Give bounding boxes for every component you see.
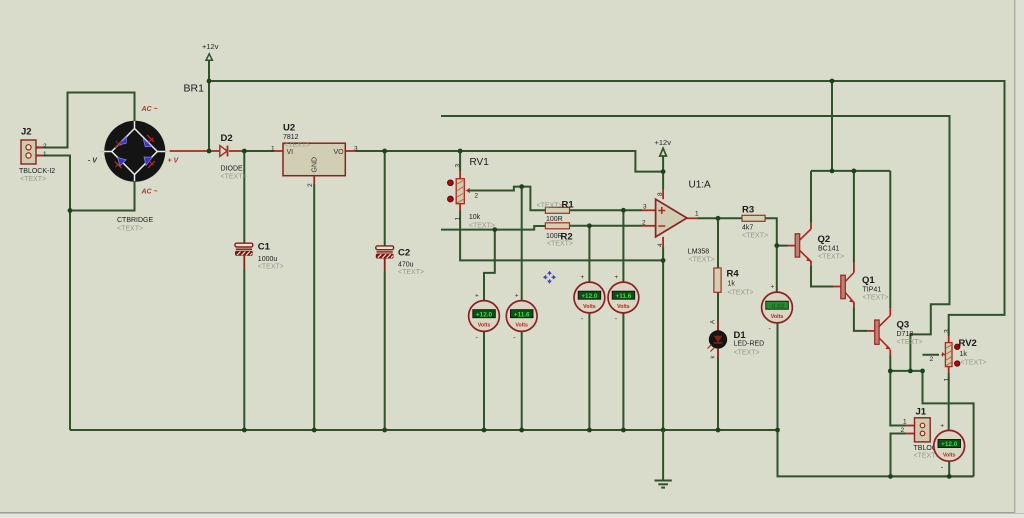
voltmeter VM3 xyxy=(574,274,605,323)
LED D1 xyxy=(708,320,765,359)
wire output to bottom right rail xyxy=(923,371,974,477)
node VM4 tap xyxy=(621,208,626,213)
node VM5 tap on Q2 base wire xyxy=(774,243,779,248)
svg-text:<TEXT>: <TEXT> xyxy=(818,253,844,260)
svg-text:Volts: Volts xyxy=(771,314,784,320)
svg-text:<TEXT>: <TEXT> xyxy=(20,176,46,183)
svg-text:2: 2 xyxy=(475,193,479,200)
wire bridge +V to D2 anode (red) xyxy=(170,150,220,152)
node J2 pin1 / bridge bottom xyxy=(68,208,73,213)
svg-text:Volts: Volts xyxy=(478,323,491,329)
bridge diode NW xyxy=(115,137,126,148)
svg-text:+11.6: +11.6 xyxy=(615,293,631,300)
svg-text:GND: GND xyxy=(312,157,319,173)
svg-text:D2: D2 xyxy=(221,133,233,144)
pin Q2 base stub xyxy=(788,245,796,247)
voltmeter VM2 xyxy=(506,293,537,342)
voltmeter VM5 xyxy=(762,284,793,334)
svg-text:+12v: +12v xyxy=(655,138,672,147)
node VM5 on ground rail corner xyxy=(775,428,780,433)
svg-text:8: 8 xyxy=(657,192,664,196)
pin U2 VI stub xyxy=(274,150,283,152)
capacitor C2 xyxy=(376,246,424,276)
svg-text:1k: 1k xyxy=(960,351,968,358)
wire R3 right to Q2 base xyxy=(765,218,787,245)
pin RV2 pin3 stub xyxy=(948,336,950,343)
wire C1 top xyxy=(243,151,245,243)
svg-text:R4: R4 xyxy=(727,269,740,280)
wire output node horizontal xyxy=(890,370,922,372)
node Q1 collector rail tap xyxy=(852,169,857,174)
pin R1 right red to op-amp pin3 xyxy=(642,209,656,211)
node RV2 wiper tee xyxy=(920,369,925,374)
svg-text:+: + xyxy=(515,293,519,300)
pin C2 bottom stub xyxy=(384,259,386,273)
pin Q1 collector stub xyxy=(853,263,855,273)
voltmeter VM6 xyxy=(934,422,965,471)
svg-text:Volts: Volts xyxy=(583,304,596,310)
wire R2 right to op-amp pin2 xyxy=(570,225,643,227)
potentiometer RV1 xyxy=(448,157,495,230)
svg-text:+12.0: +12.0 xyxy=(476,311,493,318)
svg-text:- V: - V xyxy=(88,158,98,165)
svg-text:<TEXT>: <TEXT> xyxy=(742,233,768,240)
svg-text:<TEXT>: <TEXT> xyxy=(469,223,495,230)
pin D1 anode stub xyxy=(717,322,719,331)
pin Q2 collector stub xyxy=(810,223,812,230)
wire VM1 bottom xyxy=(483,331,485,430)
svg-text:+: + xyxy=(940,422,944,429)
pin J1 pin1 stub xyxy=(906,425,920,427)
svg-text:<TEXT>: <TEXT> xyxy=(689,257,715,264)
svg-text:+12.0: +12.0 xyxy=(941,441,958,448)
svg-text:+12v: +12v xyxy=(202,42,219,51)
svg-text:TBLOCK-I2: TBLOCK-I2 xyxy=(19,168,55,175)
wire VM5 bottom xyxy=(777,323,779,430)
wire bottom-right rail xyxy=(778,430,974,476)
wire +12v stem down to D2 anode node xyxy=(208,61,210,152)
svg-text:CTBRIDGE: CTBRIDGE xyxy=(117,217,154,224)
node C1 on ground rail xyxy=(242,428,247,433)
pin U2 VO stub xyxy=(345,150,355,152)
svg-text:3: 3 xyxy=(643,204,647,211)
svg-text:Volts: Volts xyxy=(617,304,630,310)
wire Q3 collector up xyxy=(889,171,891,308)
node VM6 on bottom rail xyxy=(947,474,952,479)
wire VM5 top xyxy=(776,246,778,293)
svg-text:3: 3 xyxy=(354,146,358,153)
node VM4 on ground rail xyxy=(621,428,626,433)
svg-text:DIODE: DIODE xyxy=(221,166,244,173)
svg-text:1: 1 xyxy=(43,151,47,158)
window right border line xyxy=(1014,0,1015,513)
svg-text:7812: 7812 xyxy=(283,134,299,141)
pin RV2 pin1 stub xyxy=(948,367,950,373)
svg-text:Volts: Volts xyxy=(943,452,956,458)
wire left ground drop xyxy=(69,211,71,431)
svg-text:4: 4 xyxy=(657,243,664,247)
svg-text:AC ~: AC ~ xyxy=(141,189,158,196)
bridge diode SE xyxy=(144,157,155,168)
op-amp U1:A xyxy=(642,180,715,264)
ground symbol xyxy=(655,430,672,488)
transistor Q3 D718 xyxy=(875,316,923,350)
svg-text:C2: C2 xyxy=(398,248,410,259)
svg-text:1: 1 xyxy=(944,378,951,382)
svg-text:R3: R3 xyxy=(742,205,754,216)
wire J2 pin2 to bridge AC top xyxy=(36,93,135,148)
svg-text:VI: VI xyxy=(287,149,294,156)
node RV1 pin3 on VO rail xyxy=(458,149,463,154)
svg-text:C1: C1 xyxy=(258,242,271,253)
svg-text:2: 2 xyxy=(930,356,934,363)
node Q2 collector rail tap xyxy=(830,169,835,174)
node feedback tap on output node xyxy=(908,369,913,374)
svg-text:3: 3 xyxy=(455,164,462,168)
svg-text:D718: D718 xyxy=(897,331,914,338)
svg-text:<TEXT>: <TEXT> xyxy=(728,290,754,297)
svg-text:470u: 470u xyxy=(398,262,414,269)
bridge diode SW xyxy=(115,158,126,169)
transistor Q2 BC141 xyxy=(795,229,844,262)
wire VM4 branch xyxy=(622,210,624,282)
wire Q3 emitter down xyxy=(889,356,891,371)
svg-text:U1:A: U1:A xyxy=(689,180,712,191)
node +12v tap on top rail xyxy=(207,79,212,84)
pin R2 right red to op-amp pin2 xyxy=(642,225,656,227)
pin op-amp pin8 stub xyxy=(662,189,664,199)
terminal block J2 xyxy=(19,127,55,183)
svg-text:Q3: Q3 xyxy=(897,320,910,331)
terminal block J1 xyxy=(901,407,950,460)
bridge rectifier BR1 CTBRIDGE xyxy=(88,83,204,233)
svg-text:1: 1 xyxy=(271,146,275,153)
voltmeter VM1 xyxy=(469,293,500,342)
wire U2 GND pin2 down xyxy=(313,184,315,430)
wire D2 cathode stub xyxy=(229,150,243,152)
node R4 tap on output wire xyxy=(716,216,721,221)
svg-text:<TEXT>: <TEXT> xyxy=(547,241,573,248)
bridge diode NE xyxy=(143,135,154,147)
wire RV2 wiper xyxy=(923,354,940,356)
svg-text:1: 1 xyxy=(695,211,699,218)
wire J2 pin1 to bridge AC bottom xyxy=(36,156,135,211)
wire VM3 bottom xyxy=(588,313,590,430)
pin RV1 pin3 stub xyxy=(459,171,461,179)
origin marker xyxy=(543,271,556,284)
node D1 on ground rail xyxy=(716,428,721,433)
power symbol +12v (left) xyxy=(202,42,219,61)
wire C1 bottom xyxy=(243,270,245,430)
wire top +12v rail to RV2 pin3 xyxy=(209,81,1005,336)
pin Q3 emitter stub xyxy=(889,350,891,356)
node C2 on VO rail xyxy=(382,149,387,154)
pin J2 pin1 stub xyxy=(31,155,44,157)
pin Q3 base stub xyxy=(867,330,875,332)
svg-text:1: 1 xyxy=(903,419,907,426)
svg-text:Volts: Volts xyxy=(515,323,528,329)
svg-text:2: 2 xyxy=(43,143,47,150)
svg-text:+12.0: +12.0 xyxy=(581,293,598,300)
svg-text:+11.6: +11.6 xyxy=(514,311,530,318)
node VM1 on ground rail xyxy=(482,428,487,433)
svg-text:<TEXT>: <TEXT> xyxy=(221,174,247,181)
wire op-amp pin4 down xyxy=(662,247,664,430)
power symbol +12v (op-amp) xyxy=(655,138,672,156)
node +12v arrow2 tee xyxy=(661,169,666,174)
svg-text:D1: D1 xyxy=(734,330,747,341)
node C2 on ground rail xyxy=(382,428,387,433)
wire RV1 wiper to R1 xyxy=(467,187,545,211)
svg-text:R1: R1 xyxy=(562,200,575,211)
resistor R2 xyxy=(545,223,573,248)
wire Q2 emitter to Q1 base xyxy=(811,266,833,287)
node VM3 tap xyxy=(587,223,592,228)
svg-text:<TEXT>: <TEXT> xyxy=(537,203,563,210)
wire D2 cathode to U2 VI xyxy=(243,150,274,152)
svg-text:U2: U2 xyxy=(283,123,295,134)
wire VM6 bottom xyxy=(948,461,950,476)
wire op-amp pin8 to +12v xyxy=(662,172,664,189)
transistor Q1 TIP41 xyxy=(841,273,889,303)
svg-text:+ V: + V xyxy=(168,158,180,165)
wire wiper branch to VM2 xyxy=(521,187,523,301)
resistor R4 xyxy=(714,268,754,297)
svg-text:100R: 100R xyxy=(546,216,563,223)
pin D1 cathode stub xyxy=(717,349,719,357)
pin J2 pin2 stub xyxy=(31,146,44,148)
node D2 cathode / C1 xyxy=(242,149,247,154)
wire R1 right to op-amp pin3 xyxy=(570,209,643,211)
svg-text:-0.02: -0.02 xyxy=(770,303,785,310)
voltmeter VM4 xyxy=(608,274,639,323)
window bottom strip xyxy=(0,512,1024,514)
svg-text:4k7: 4k7 xyxy=(742,225,753,232)
wire feedback rail y116 to output node xyxy=(441,116,950,371)
svg-text:Q1: Q1 xyxy=(862,275,875,286)
node VM2 on ground rail xyxy=(519,428,524,433)
node top rail to collector rail xyxy=(830,79,835,84)
wire collectors rail xyxy=(811,170,890,172)
wire Q2 collector up xyxy=(810,171,812,223)
potentiometer RV2 xyxy=(930,329,987,382)
pin J1 pin2 stub xyxy=(906,433,920,435)
svg-text:<TEXT>: <TEXT> xyxy=(961,360,987,367)
pin op-amp pin4 stub xyxy=(662,237,664,247)
svg-text:+: + xyxy=(580,274,584,281)
svg-text:LED-RED: LED-RED xyxy=(734,341,765,348)
wire VM2 bottom xyxy=(521,331,523,430)
wire R2 left to feedback rail xyxy=(441,226,545,230)
svg-text:2: 2 xyxy=(901,427,905,434)
svg-text:2: 2 xyxy=(307,183,314,187)
resistor R1 xyxy=(537,200,575,224)
wire ground rail xyxy=(70,429,778,431)
svg-text:<TEXT>: <TEXT> xyxy=(284,142,310,149)
wire Q1 collector up xyxy=(853,171,855,263)
wire D1 cathode down xyxy=(717,349,719,430)
svg-text:<TEXT>: <TEXT> xyxy=(117,226,143,233)
svg-text:+: + xyxy=(475,293,479,300)
wire +12v arrow2 stem xyxy=(662,156,664,171)
svg-text:<TEXT>: <TEXT> xyxy=(258,264,284,271)
svg-text:AC ~: AC ~ xyxy=(141,106,158,113)
svg-text:+: + xyxy=(614,274,618,281)
wire VM4 bottom xyxy=(622,313,624,430)
capacitor C1 xyxy=(235,242,284,271)
regulator U2 7812 xyxy=(271,123,358,188)
svg-text:<TEXT>: <TEXT> xyxy=(863,295,889,302)
node J1 pin2 on bottom rail xyxy=(888,474,893,479)
pin op-amp out stub xyxy=(687,217,698,219)
svg-text:J2: J2 xyxy=(21,127,32,138)
svg-text:Q2: Q2 xyxy=(818,234,831,245)
node +12v stem on D2 wire xyxy=(207,149,212,154)
resistor R3 xyxy=(742,205,768,240)
svg-text:A: A xyxy=(711,320,717,324)
wire R4 top xyxy=(717,218,719,267)
svg-text:3: 3 xyxy=(944,329,951,333)
svg-text:1: 1 xyxy=(455,217,462,221)
node U2 gnd on ground rail xyxy=(312,428,317,433)
wire Q3 emitter node to J1 pin1 xyxy=(890,371,906,426)
node wiper / VM2 tap xyxy=(519,184,524,189)
node VM1 tap on R2 wire xyxy=(492,227,497,232)
wire top rail drop to collectors rail xyxy=(831,81,833,171)
wire RV1 pin3 up xyxy=(459,151,461,171)
pin Q1 base stub xyxy=(833,286,841,288)
wire RV1 pin1 to op-amp pin4 ground wire xyxy=(460,211,663,260)
node Q3 emitter junction xyxy=(888,369,893,374)
svg-text:+: + xyxy=(771,284,775,291)
svg-text:<TEXT>: <TEXT> xyxy=(734,350,760,357)
svg-text:10k: 10k xyxy=(469,214,481,221)
svg-text:TIP41: TIP41 xyxy=(863,287,882,294)
wire VM1 branch xyxy=(484,230,495,301)
svg-text:1k: 1k xyxy=(728,281,736,288)
svg-text:<TEXT>: <TEXT> xyxy=(897,339,923,346)
wire VM3 branch xyxy=(588,226,590,282)
pin RV1 pin1 stub xyxy=(459,204,461,211)
svg-text:2: 2 xyxy=(642,220,646,227)
pin Q2 emitter stub xyxy=(810,261,812,266)
wire U2 VO +12v rail xyxy=(355,151,663,172)
svg-text:J1: J1 xyxy=(916,407,927,418)
wire bottom ground rail right xyxy=(891,475,974,477)
svg-text:RV1: RV1 xyxy=(470,157,490,168)
wire J1 pin2 to ground rail xyxy=(891,434,907,477)
node gnd wire on pin4 drop xyxy=(661,258,666,263)
pin Q3 collector stub xyxy=(889,308,891,316)
svg-text:1000u: 1000u xyxy=(258,256,278,263)
wire RV2 pin1 to VM6 xyxy=(948,373,950,431)
pin U2 GND stub xyxy=(313,176,315,184)
node VM3 on ground rail xyxy=(587,428,592,433)
svg-text:<TEXT>: <TEXT> xyxy=(398,269,424,276)
wire op-amp out to R3 xyxy=(698,217,743,219)
wire R4 bottom to D1 xyxy=(717,292,719,330)
svg-text:BC141: BC141 xyxy=(818,245,840,252)
pin C1 bottom stub xyxy=(243,256,245,270)
wire C2 top xyxy=(384,151,386,246)
wire C2 bottom xyxy=(384,272,386,430)
diode D2 xyxy=(220,133,247,181)
pin Q1 emitter stub xyxy=(853,302,855,308)
wire Q1 emitter to Q3 base xyxy=(854,308,867,331)
svg-text:BR1: BR1 xyxy=(184,83,205,95)
svg-text:LM358: LM358 xyxy=(688,249,710,256)
svg-text:VO: VO xyxy=(334,149,345,156)
svg-text:RV2: RV2 xyxy=(959,338,977,349)
node op-amp pin4 on ground rail xyxy=(661,428,666,433)
